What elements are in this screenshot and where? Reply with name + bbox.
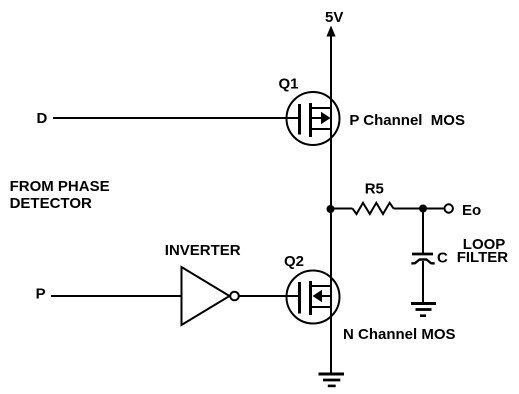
wire R5 to output node (394, 208, 423, 210)
wire junction node to ground (Q2 source column) (330, 209, 332, 374)
capacitor C (411, 254, 434, 263)
wire junction to R5 (331, 208, 353, 210)
svg-text:P: P (36, 286, 46, 303)
wire capacitor to ground (422, 261, 424, 303)
ground below capacitor (411, 304, 436, 316)
wire output node to Eo terminal (423, 208, 445, 210)
svg-text:P Channel MOS: P Channel MOS (349, 112, 465, 129)
svg-text:FROM PHASE: FROM PHASE (10, 178, 110, 195)
svg-text:Eo: Eo (462, 202, 481, 219)
label FROM PHASE DETECTOR (10, 178, 110, 212)
transistor Q2 N-channel MOSFET (287, 271, 340, 324)
inverter U1 output bubble (230, 292, 239, 301)
wire output node to capacitor C (422, 209, 424, 254)
svg-text:R5: R5 (365, 180, 384, 197)
terminal Eo open circle (445, 204, 453, 212)
svg-text:INVERTER: INVERTER (165, 242, 241, 259)
svg-text:5V: 5V (325, 9, 343, 26)
svg-text:FILTER: FILTER (457, 249, 509, 266)
svg-text:C: C (437, 250, 448, 267)
svg-text:D: D (37, 110, 48, 127)
svg-text:Q1: Q1 (279, 76, 299, 93)
svg-text:N Channel MOS: N Channel MOS (343, 326, 456, 343)
wire D to Q1 gate (53, 117, 299, 119)
resistor R5 (353, 203, 394, 214)
wire P to inverter input (51, 295, 181, 297)
transistor Q1 P-channel MOSFET (287, 92, 340, 145)
svg-text:Q2: Q2 (284, 253, 304, 270)
junction node at filter output (419, 205, 427, 213)
junction node at Q1/Q2 drains (327, 205, 335, 213)
inverter U1 triangle (182, 267, 230, 325)
svg-text:DETECTOR: DETECTOR (10, 195, 92, 212)
wire inverter output to Q2 gate (239, 295, 299, 297)
power supply arrow 5V (326, 26, 335, 37)
wire 5V rail to junction node (drain column) (330, 34, 332, 209)
label LOOP FILTER (457, 236, 509, 266)
ground below Q2 (319, 374, 345, 386)
